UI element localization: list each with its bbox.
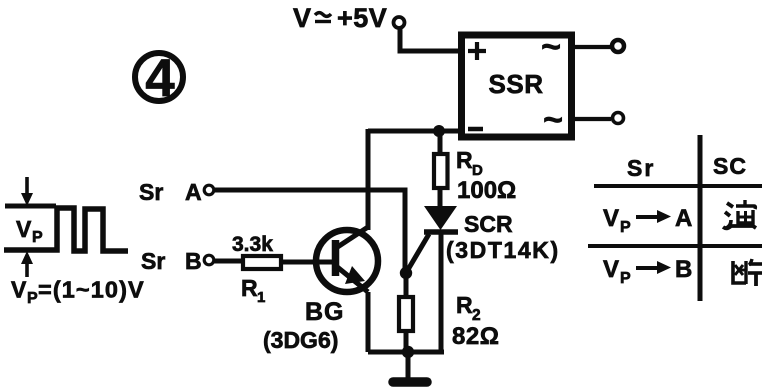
wire: V+ terminal to SSR plus pin <box>400 28 459 51</box>
svg-text:P: P <box>620 270 631 287</box>
svg-text:~: ~ <box>543 101 563 139</box>
svg-text:SSR: SSR <box>489 69 544 99</box>
wire: emitter down to bottom rail <box>366 292 371 352</box>
row1 Vp -> A <box>603 205 692 236</box>
terminal: input A <box>204 185 214 195</box>
svg-text:+5V: +5V <box>337 3 387 33</box>
transistor Q1 BG (3DG6) <box>316 227 378 292</box>
SCR V1 (3DT14K) symbol <box>424 206 458 232</box>
svg-text:V: V <box>11 277 27 303</box>
dimension arrow down <box>21 177 33 206</box>
svg-text:=(1~10)V: =(1~10)V <box>38 277 145 303</box>
wire: SSR minus pin to collector riser <box>368 129 459 134</box>
svg-text:SCR: SCR <box>464 211 513 237</box>
label RD <box>456 147 483 179</box>
svg-text:R: R <box>241 275 258 301</box>
svg-text:P: P <box>27 290 38 307</box>
terminal: input B <box>204 255 214 265</box>
resistor R1 body <box>243 256 281 269</box>
junction: node gate / R2 / A-line <box>400 267 412 279</box>
terminal: AC output top <box>612 40 624 52</box>
resistor R2 body <box>399 297 413 331</box>
svg-text:2: 2 <box>472 307 481 324</box>
svg-text:V: V <box>603 256 619 283</box>
svg-text:1: 1 <box>257 289 265 306</box>
dimension arrow up <box>21 251 33 277</box>
wire: collector riser <box>366 129 371 230</box>
svg-text:V: V <box>293 3 311 33</box>
svg-text:BG: BG <box>305 298 345 326</box>
svg-text:A: A <box>675 205 692 232</box>
row2 output: hanzi DUAN (off) <box>733 259 762 286</box>
op-amp-like module U1 SSR box <box>462 28 572 139</box>
table vertical rule <box>698 135 703 301</box>
svg-text:B: B <box>185 248 202 274</box>
junction: bottom rail / ground <box>402 346 414 358</box>
label Vp=(1~10)V <box>11 277 145 308</box>
svg-text:V: V <box>16 216 32 242</box>
table horizontal rule 2 <box>588 244 762 248</box>
terminal: V+ input <box>394 17 405 28</box>
svg-text:P: P <box>620 219 631 236</box>
svg-text:R: R <box>456 292 473 318</box>
svg-text:A: A <box>185 179 202 205</box>
svg-text:Sr: Sr <box>139 179 163 205</box>
svg-text:3.3k: 3.3k <box>232 233 273 256</box>
wire: SSR AC output pin bottom <box>575 117 611 121</box>
table horizontal rule 1 <box>594 184 762 188</box>
wire: SCR cathode down to bottom rail <box>439 232 444 352</box>
wire: SSR AC output pin top <box>575 45 611 49</box>
svg-text:4: 4 <box>145 49 175 108</box>
row2 Vp -> B <box>603 256 692 287</box>
svg-text:100Ω: 100Ω <box>457 177 516 204</box>
row1 output: hanzi TONG (on) <box>723 200 756 228</box>
figure number 4 (circled) <box>135 49 183 108</box>
wire: junction to R2 <box>404 273 409 297</box>
supply label V≃+5V <box>293 3 387 33</box>
input label Sr A <box>139 179 202 205</box>
wire: RD to SCR anode <box>438 188 443 208</box>
label Vp <box>16 216 43 246</box>
wire: B terminal to R1 <box>214 259 242 264</box>
wire: SCR gate diagonal <box>406 234 429 273</box>
ground <box>393 352 427 382</box>
waveform Vp pulses <box>4 206 128 251</box>
svg-text:~: ~ <box>541 28 561 66</box>
svg-text:R: R <box>456 147 473 173</box>
svg-text:V: V <box>603 205 619 232</box>
terminal: AC output bottom <box>613 113 624 124</box>
svg-text:Sr: Sr <box>141 248 165 274</box>
wire: R1 to transistor base <box>281 260 316 265</box>
truth table <box>588 135 762 301</box>
svg-text:SC: SC <box>713 153 747 179</box>
svg-text:82Ω: 82Ω <box>452 323 499 350</box>
label R1 <box>241 275 265 306</box>
wire: bottom rail <box>368 350 444 355</box>
resistor RD body <box>434 154 448 188</box>
junction: node SSR- / RD top <box>433 125 445 137</box>
wire: R2 to bottom rail <box>404 331 409 352</box>
input label Sr B <box>141 248 202 274</box>
wire: junction to RD <box>438 131 443 154</box>
svg-text:(3DG6): (3DG6) <box>263 327 338 353</box>
svg-text:B: B <box>675 256 692 283</box>
label R2 <box>456 292 481 324</box>
wire: A terminal to gate junction <box>214 190 405 268</box>
svg-text:P: P <box>32 229 43 246</box>
svg-text:(3DT14K): (3DT14K) <box>446 237 560 263</box>
svg-text:Sr: Sr <box>627 155 655 181</box>
